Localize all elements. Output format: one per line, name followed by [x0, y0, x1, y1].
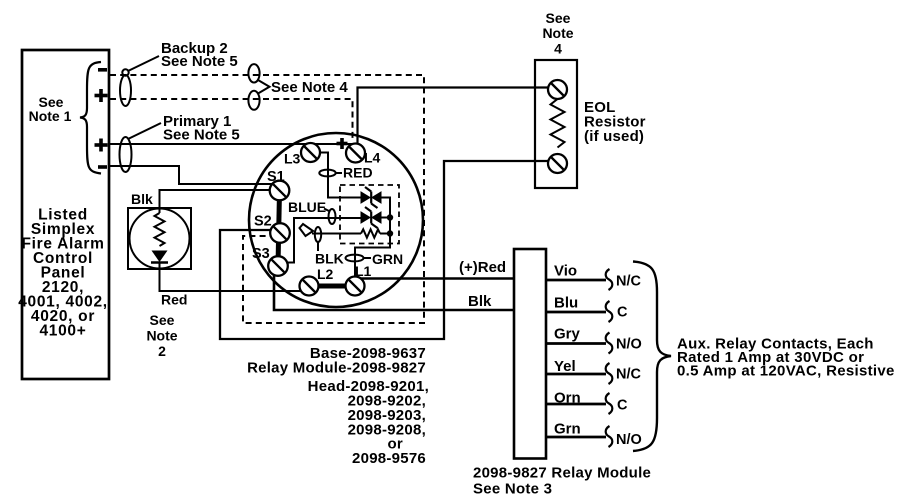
relay module caption — [473, 465, 651, 498]
module wire Gry — [546, 326, 642, 354]
svg-text:RED: RED — [343, 165, 373, 181]
Backup 2 label — [128, 40, 238, 71]
screw L1 — [346, 277, 365, 296]
svg-text:Gry: Gry — [554, 326, 581, 343]
wire horn BLK internal — [312, 233, 361, 235]
screw L3 — [301, 143, 320, 162]
terminal + backup — [95, 89, 108, 102]
head bus row2 stub — [381, 217, 390, 219]
wire S2 to EOL return — [220, 161, 549, 339]
screw S3 — [268, 256, 288, 276]
aux contacts label — [677, 336, 895, 380]
terminal - primary — [98, 165, 107, 169]
wire backup plus (dashed to L4) — [110, 99, 353, 142]
svg-text:BLUE: BLUE — [288, 199, 326, 215]
svg-text:N/C: N/C — [616, 274, 642, 290]
module wire Orn — [546, 390, 628, 415]
screw L2 — [300, 277, 319, 296]
svg-text:Vio: Vio — [554, 263, 577, 280]
svg-text:C: C — [617, 398, 628, 414]
svg-text:Note 1: Note 1 — [29, 108, 72, 124]
wire S3 BLUE internal — [287, 218, 361, 263]
diode in LED — [151, 251, 168, 263]
wire L4 to EOL top — [358, 88, 549, 144]
See Note 4 top label — [542, 10, 573, 57]
svg-text:4100+: 4100+ — [39, 323, 86, 340]
plus mark at L4 — [337, 138, 348, 149]
svg-text:L4: L4 — [364, 150, 381, 166]
See Note 2 label — [146, 312, 177, 359]
svg-text:Yel: Yel — [554, 358, 576, 375]
BLUE splice oval — [329, 209, 336, 224]
thick bar S1-S3 — [278, 191, 280, 266]
svg-text:(+)Red: (+)Red — [459, 259, 506, 276]
screw L4 — [346, 144, 365, 163]
svg-text:See Note 5: See Note 5 — [161, 53, 238, 70]
resistor in LED — [155, 213, 165, 246]
remote LED circle — [130, 209, 190, 269]
wire Blk S3 to module — [274, 275, 514, 311]
svg-text:L3: L3 — [284, 151, 301, 167]
control panel text — [18, 207, 108, 340]
svg-text:Blk: Blk — [131, 191, 153, 207]
svg-text:L2: L2 — [317, 266, 334, 282]
BLK splice oval — [315, 227, 321, 242]
svg-text:2098-9827 Relay Module: 2098-9827 Relay Module — [473, 465, 651, 482]
svg-text:See Note 3: See Note 3 — [473, 481, 552, 498]
head dashed box — [340, 185, 399, 244]
svg-text:Red: Red — [161, 292, 187, 308]
svg-text:See: See — [150, 312, 175, 328]
svg-text:L1: L1 — [355, 263, 372, 279]
svg-text:Relay Module-2098-9827: Relay Module-2098-9827 — [247, 360, 426, 377]
RED splice oval — [319, 170, 335, 177]
See Note 1 label — [29, 94, 72, 124]
svg-text:S2: S2 — [254, 214, 272, 230]
horn symbol — [300, 224, 314, 236]
svg-text:GRN: GRN — [372, 251, 403, 267]
module wire Blu — [546, 295, 628, 323]
module wire Vio — [546, 263, 642, 291]
svg-text:BLK: BLK — [315, 251, 344, 267]
wire backup minus (dashed loop to S2) — [110, 75, 424, 323]
svg-text:2: 2 — [158, 343, 166, 359]
wire LED blk to S1 — [160, 190, 272, 213]
GRN label — [364, 251, 403, 267]
wire LED red to L2 — [160, 262, 303, 291]
module wire Grn — [546, 421, 642, 449]
module wire Yel — [546, 358, 642, 384]
thick bar L2-L1 — [309, 284, 355, 289]
svg-text:Blu: Blu — [554, 295, 578, 312]
svg-text:N/C: N/C — [616, 367, 642, 383]
wire (+)Red L1 to module — [356, 277, 514, 280]
terminal + primary — [95, 139, 108, 152]
svg-text:Note: Note — [146, 328, 177, 344]
svg-text:S1: S1 — [267, 169, 285, 185]
wire primary plus — [110, 143, 352, 145]
GRN splice oval — [346, 255, 364, 262]
svg-text:Note: Note — [542, 25, 573, 41]
relay module box — [514, 249, 546, 459]
wire L3 RED internal — [320, 153, 362, 198]
resistor head internal — [361, 229, 380, 237]
splice primary pair — [120, 137, 132, 172]
svg-text:Blk: Blk — [468, 293, 492, 310]
RED label — [336, 165, 373, 181]
svg-text:(if used): (if used) — [584, 128, 644, 145]
splice backup pair — [120, 69, 131, 106]
head bus resistor stub — [380, 233, 390, 235]
remote LED indicator box — [128, 208, 191, 269]
svg-text:See Note 5: See Note 5 — [163, 127, 240, 144]
svg-text:4: 4 — [554, 41, 562, 57]
EOL resistor box — [535, 60, 577, 188]
EOL resistor zigzag — [551, 99, 565, 148]
junction resistor — [387, 230, 393, 236]
See Note 4 splice ovals — [248, 64, 269, 110]
junction row2 — [387, 214, 393, 220]
EOL screw top — [548, 80, 567, 99]
svg-text:C: C — [617, 305, 628, 321]
EOL screw bottom — [548, 154, 567, 173]
svg-text:Orn: Orn — [554, 390, 581, 407]
BLK label — [315, 242, 344, 267]
detector base circle — [249, 133, 423, 307]
suppressor row2 — [361, 207, 381, 228]
head bus wire — [355, 198, 390, 278]
BLUE label — [288, 199, 329, 215]
terminal - backup — [98, 68, 107, 72]
aux contacts brace — [633, 262, 671, 452]
Primary 1 label — [128, 113, 240, 144]
suppressor row1 — [361, 187, 381, 208]
brace panel terminals — [80, 62, 101, 174]
svg-text:0.5 Amp at 120VAC, Resistive: 0.5 Amp at 120VAC, Resistive — [677, 363, 895, 380]
svg-text:N/O: N/O — [616, 432, 642, 448]
svg-text:See: See — [546, 10, 571, 26]
screw S2 — [270, 223, 290, 243]
EOL Resistor label — [584, 99, 646, 145]
svg-text:S3: S3 — [252, 246, 270, 262]
wire primary minus — [110, 166, 273, 184]
control panel box — [22, 50, 109, 379]
screw S1 — [270, 181, 290, 201]
base and head model text — [247, 345, 429, 467]
svg-text:N/O: N/O — [616, 337, 642, 353]
svg-text:Grn: Grn — [554, 421, 581, 438]
svg-text:2098-9576: 2098-9576 — [352, 450, 426, 467]
svg-text:See Note 4: See Note 4 — [271, 79, 348, 96]
